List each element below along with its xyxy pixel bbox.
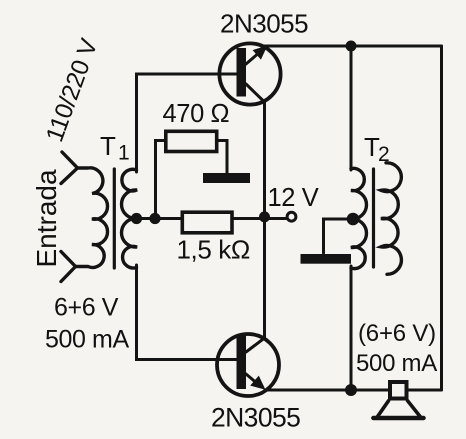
- input terminal fork (bottom): [61, 252, 76, 282]
- node: top rail / T2 junction: [346, 41, 357, 52]
- wire: T1 secondary top lead to Q1 base: [137, 74, 241, 172]
- wire: T1 secondary bottom lead to Q2 base: [137, 265, 241, 360]
- transformer T2 core: [372, 169, 375, 267]
- svg-text:500 mA: 500 mA: [356, 350, 437, 377]
- ground bar under R1: [203, 173, 250, 183]
- node: 12V junction dot: [259, 211, 270, 222]
- node: R1/R2 junction dot: [149, 213, 160, 224]
- node: T2 center tap dot: [347, 213, 360, 226]
- wire: R2 right lead to 12V terminal: [234, 217, 287, 220]
- wire: right rail: [440, 46, 443, 390]
- resistor R2 1,5 kohm: [182, 212, 232, 233]
- input terminal fork (top): [61, 152, 78, 184]
- wire: T2 tap to bar: [324, 219, 352, 253]
- svg-text:Entrada: Entrada: [31, 169, 62, 267]
- transistor Q1 2N3055 (top): [219, 43, 280, 104]
- wire: top rail: [264, 45, 442, 48]
- transformer T2 secondary winding: [381, 163, 401, 275]
- svg-text:6+6 V: 6+6 V: [54, 294, 119, 322]
- node: T1 center tap dot: [131, 213, 142, 224]
- wire: R1 left lead down to tap node: [156, 141, 165, 219]
- svg-text:(6+6 V): (6+6 V): [358, 320, 436, 347]
- wire: T2 top lead: [350, 46, 353, 170]
- svg-text:500 mA: 500 mA: [45, 326, 129, 354]
- wire: bottom rail right of speaker: [408, 389, 442, 392]
- transformer T1 core: [113, 169, 116, 268]
- speaker SPKR: [373, 382, 423, 418]
- svg-text:2N3055: 2N3055: [211, 403, 300, 433]
- ground bar at T2 tap: [301, 254, 352, 264]
- transformer T1 primary winding: [76, 168, 108, 268]
- transistor Q2 2N3055 (bottom): [217, 334, 279, 396]
- wire: R1 right lead to bar: [218, 141, 228, 175]
- 12V terminal circle: [287, 212, 296, 221]
- svg-text:T: T: [100, 131, 116, 161]
- svg-text:1: 1: [118, 142, 130, 165]
- transformer T2 primary winding: [351, 168, 366, 268]
- transformer T1 secondary winding: [122, 169, 137, 268]
- node: bottom rail / T2 junction: [345, 384, 357, 396]
- wire: T2 bottom lead: [350, 266, 353, 390]
- svg-text:2: 2: [378, 143, 390, 166]
- wire: T1 center tap to R2: [137, 217, 182, 220]
- resistor R1 470 ohm: [166, 131, 217, 151]
- wire: bottom rail left of speaker: [265, 389, 388, 392]
- svg-text:1,5 kΩ: 1,5 kΩ: [177, 235, 250, 265]
- svg-text:12 V: 12 V: [268, 184, 319, 212]
- wire: collector line Q1-Q2 vertical: [263, 102, 266, 339]
- svg-text:470 Ω: 470 Ω: [163, 100, 230, 128]
- svg-text:2N3055: 2N3055: [220, 9, 308, 39]
